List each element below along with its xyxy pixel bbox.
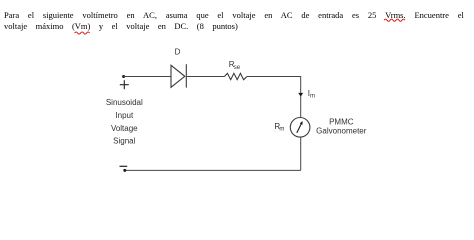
svg-text:Galvonometer: Galvonometer <box>316 127 367 136</box>
label Im <box>308 89 315 100</box>
diode D <box>171 64 186 87</box>
svg-text:PMMC: PMMC <box>329 118 354 127</box>
label Rm <box>274 122 284 133</box>
svg-text:Input: Input <box>115 111 134 120</box>
svg-text:se: se <box>234 65 241 71</box>
label PMMC Galvonometer <box>316 118 367 136</box>
wire: resistor to top-right corner, down to meter <box>247 77 301 118</box>
node: - terminal dot <box>123 169 126 172</box>
svg-text:Signal: Signal <box>113 137 135 146</box>
+ polarity label <box>120 80 129 89</box>
red squiggle under Vrms <box>384 19 405 21</box>
current arrow Im <box>298 93 303 97</box>
- polarity label <box>120 165 128 167</box>
svg-text:m: m <box>279 127 284 133</box>
galvanometer Rm (PMMC movement) <box>290 118 310 138</box>
problem statement text <box>4 10 474 32</box>
wire: + terminal to diode anode <box>124 76 171 78</box>
label Rse <box>229 60 241 71</box>
wire: bottom return to - terminal <box>125 169 301 171</box>
svg-text:D: D <box>175 48 181 57</box>
red squiggle under Vm <box>75 32 90 34</box>
node: + terminal dot <box>122 75 125 78</box>
wire: diode cathode to resistor <box>186 76 224 78</box>
wire: meter bottom to bottom-right corner <box>300 137 302 170</box>
source label: Sinusoidal Input Voltage Signal <box>106 98 143 145</box>
resistor Rse <box>225 73 248 79</box>
svg-text:Voltage: Voltage <box>111 124 138 133</box>
svg-text:m: m <box>310 94 315 100</box>
svg-text:Sinusoidal: Sinusoidal <box>106 98 143 107</box>
